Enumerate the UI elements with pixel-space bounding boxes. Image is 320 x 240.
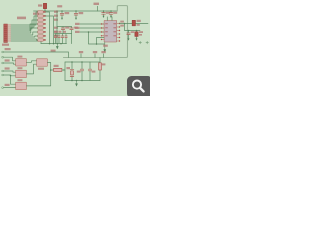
wire IN6 to G3	[4, 87, 16, 89]
label R6	[54, 31, 58, 33]
label D1 value	[137, 24, 140, 26]
wire G1 out to G4	[26, 61, 36, 63]
wire IN3 to G1	[4, 63, 16, 64]
label net A	[75, 23, 80, 25]
wire U1 top pins	[107, 17, 112, 21]
resistor R6	[38, 31, 43, 33]
wire pin2 to R2	[11, 16, 38, 27]
crystal sub-circuit top wire	[65, 61, 100, 63]
wire U1 bottom pin + ground	[104, 42, 106, 52]
net tick T1 on long wire	[80, 54, 82, 58]
label net C	[75, 31, 80, 33]
junction dot IN5	[10, 75, 12, 77]
wire R4 end down bus	[46, 16, 54, 44]
labels right of U1 pins	[120, 21, 124, 23]
label IN1	[5, 48, 11, 50]
label R7	[54, 35, 58, 37]
wire pin5 to R5	[11, 28, 38, 33]
label T1	[79, 51, 83, 53]
wire IN5 to G2	[4, 74, 16, 77]
label C13 value	[139, 34, 142, 36]
capacitor C4	[102, 11, 106, 16]
junction dots on rail	[44, 10, 112, 12]
wire right section row2	[125, 24, 141, 31]
gate G1	[16, 59, 27, 66]
resistor R1	[38, 11, 43, 13]
net tick T3	[103, 54, 105, 58]
crystal X1	[70, 62, 74, 81]
wire mid row	[57, 26, 72, 28]
resistor R10 vertical	[99, 58, 102, 81]
wire G2 out to G4	[26, 64, 36, 74]
pad node X	[63, 69, 65, 71]
pin number texts inside U1	[105, 23, 116, 36]
label J1	[17, 17, 26, 20]
ground arrow under C4	[103, 16, 105, 18]
wire net A to U1	[80, 23, 104, 25]
capacitor C13 electrolytic	[135, 31, 138, 39]
capacitor C6	[61, 27, 64, 34]
capacitor C10	[61, 34, 63, 44]
resistor R2	[38, 15, 43, 17]
label G1	[17, 56, 22, 58]
wire x71.5 drop	[71, 34, 73, 44]
pad IN3	[2, 62, 4, 64]
resistor R9	[54, 68, 62, 71]
wire pin9 down	[11, 41, 41, 44]
wire top power rail	[34, 10, 118, 12]
label R3	[54, 19, 58, 21]
label G4	[38, 68, 44, 70]
label R10	[102, 63, 106, 65]
wire branch to G3 in1	[11, 76, 16, 84]
wire pin4 to R4	[11, 24, 38, 31]
label R2	[54, 15, 58, 17]
label C4	[106, 12, 110, 14]
wire IN1 long	[4, 52, 69, 58]
pad IN1	[2, 51, 4, 53]
diode D1 red	[132, 20, 135, 25]
wire U1 right to D1	[120, 23, 149, 25]
capacitor C11	[65, 34, 67, 44]
junction dots bottom bus	[49, 43, 62, 45]
junction dot	[96, 43, 98, 45]
junction dot	[50, 69, 52, 71]
label +5V	[94, 3, 100, 5]
label R1	[54, 11, 58, 13]
ground arrow under C12	[128, 38, 130, 40]
ground arrow under C13	[136, 38, 138, 40]
pad IN5	[2, 74, 4, 76]
label R9	[54, 65, 59, 67]
ground arrow crystal	[76, 81, 78, 87]
label C7	[74, 27, 78, 29]
label T3	[101, 51, 105, 53]
capacitor C14	[80, 62, 83, 81]
IC U1	[101, 21, 120, 43]
gate G4	[37, 59, 48, 66]
capacitor C5	[109, 11, 113, 16]
label C1 value	[38, 4, 42, 6]
wire IN4 to G2	[4, 71, 16, 72]
wire net C to U1	[80, 31, 104, 33]
label net B	[75, 27, 80, 29]
wire left vertical	[64, 62, 66, 81]
ground arrow under C3	[75, 18, 77, 20]
resistor R5	[38, 27, 43, 29]
gate G3	[16, 82, 27, 89]
label R5	[54, 27, 58, 29]
node marks right	[139, 41, 148, 43]
capacitor C7	[70, 27, 73, 34]
capacitor C12	[127, 31, 130, 39]
pad IN6	[2, 87, 4, 89]
label C15	[92, 71, 96, 73]
junction dots crystal	[71, 61, 83, 81]
label C3	[79, 12, 84, 14]
junction dot	[88, 31, 90, 33]
label G3	[17, 79, 22, 81]
label C5	[113, 12, 117, 14]
connector J1	[4, 24, 11, 42]
labels cap bank	[54, 31, 57, 33]
label C12	[131, 31, 134, 33]
wire G3 out up	[26, 70, 50, 86]
label C6	[65, 27, 69, 29]
capacitor C8	[54, 34, 56, 44]
ground arrow below bus	[56, 44, 58, 49]
wire net B to U1	[80, 27, 104, 29]
label GND	[51, 50, 56, 52]
wire rail drop x57	[56, 11, 58, 44]
ground arrow under C5	[110, 16, 112, 18]
capacitor C1 electrolytic top-left	[43, 3, 46, 11]
capacitor C15	[88, 62, 91, 81]
label J1 value	[2, 44, 9, 46]
ground arrow under C2	[61, 18, 63, 20]
pad IN4	[2, 70, 4, 72]
node +5V tick	[97, 6, 99, 11]
crystal sub-circuit bottom wire	[65, 80, 100, 82]
junction dots	[128, 30, 130, 32]
wire pin8 to R8	[11, 39, 38, 40]
label D1	[137, 20, 141, 22]
gate G2	[16, 70, 27, 77]
wire IN2 to G1	[4, 57, 16, 61]
wire G4 out	[47, 63, 53, 71]
junction dot	[124, 23, 126, 25]
label X1	[66, 67, 70, 69]
resistor R3	[38, 19, 43, 21]
label C2	[65, 12, 70, 14]
wire pin3 to R3	[11, 20, 38, 29]
resistor R7	[38, 35, 43, 37]
capacitor C9	[58, 34, 60, 44]
label VCC	[33, 13, 39, 15]
label G2	[17, 67, 22, 69]
wire mid bank top	[55, 33, 72, 35]
resistor R4	[38, 23, 43, 25]
label C13	[139, 31, 143, 33]
wire pin7 to R7	[11, 36, 38, 37]
label C14	[77, 71, 81, 73]
wire cap bank bottom	[41, 43, 67, 45]
resistor R8	[38, 39, 43, 41]
label IN6	[5, 84, 10, 86]
label +5V left	[57, 5, 62, 7]
wire pin6 to R6	[11, 32, 38, 35]
wire pin1 to R1	[11, 12, 38, 25]
wire R9 to pad	[62, 69, 63, 71]
net tick T2	[94, 54, 96, 58]
pad IN2	[2, 56, 4, 58]
capacitor C3	[74, 11, 78, 18]
label IN4	[5, 67, 10, 69]
label T2	[93, 51, 97, 53]
wire grey loop around IC	[64, 6, 128, 58]
label under U1	[103, 45, 108, 47]
capacitor C2	[60, 11, 64, 18]
wire U1 lower-left L	[89, 32, 105, 44]
wire R1 end down bus	[46, 12, 50, 44]
label IN3	[5, 59, 10, 61]
magnifier button	[127, 76, 152, 98]
